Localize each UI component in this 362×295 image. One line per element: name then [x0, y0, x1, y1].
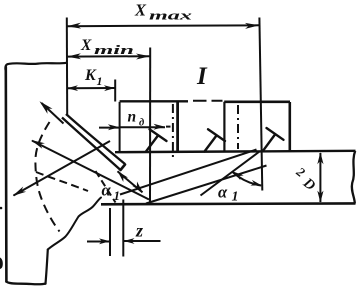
Xmin right arrow — [136, 54, 150, 60]
svg-text:I: I — [196, 63, 208, 90]
dimension K1 line — [67, 87, 115, 89]
svg-text:X: X — [80, 37, 92, 54]
svg-text:1: 1 — [97, 74, 103, 88]
workpiece bar top edge — [115, 151, 356, 152]
block 1 left edge — [119, 102, 121, 152]
part housing outline — [5, 63, 101, 284]
Xmin left arrow — [67, 53, 81, 59]
extension K1 right — [114, 80, 116, 102]
dashed hidden arc (cutter) — [35, 122, 59, 232]
support symbol S3 — [263, 128, 284, 151]
svg-text:D: D — [299, 174, 318, 194]
svg-text:min: min — [94, 43, 134, 57]
block 2 top edge — [224, 101, 290, 104]
svg-text:1: 1 — [232, 190, 239, 205]
nD left arrow pointing right at block edge — [108, 124, 120, 130]
long line L2 with arrows both ends — [32, 141, 149, 200]
workpiece bar bottom edge — [101, 202, 356, 206]
machined cone line B (shallow lower) — [146, 166, 267, 204]
extension line right for Xmax going down through bar — [259, 18, 262, 191]
z dim left tail+arrow — [87, 241, 110, 243]
svg-text:2: 2 — [293, 163, 309, 180]
nD mid line — [119, 126, 165, 128]
svg-text:1: 1 — [114, 188, 121, 203]
support symbol S2 — [205, 129, 226, 151]
svg-text:α: α — [218, 183, 228, 202]
tool blade lower edge — [62, 118, 121, 171]
K1 right arrow — [104, 85, 115, 91]
K1 left arrow — [67, 85, 78, 91]
dashed short diagonal near tool tip — [96, 171, 116, 203]
hidden top line dashes between blocks — [193, 100, 223, 102]
svg-text:z: z — [135, 221, 143, 241]
dimension nD line tail left — [99, 127, 119, 129]
steep cut line right — [201, 152, 260, 196]
svg-text:п: п — [128, 109, 137, 126]
nD tick after arrow — [166, 126, 171, 128]
dimension Xmin line — [67, 55, 150, 57]
centerline in block 2 — [237, 105, 239, 149]
support symbol S1 — [146, 129, 167, 151]
svg-text:X: X — [134, 1, 147, 20]
z extension line right — [122, 200, 124, 257]
alpha1 arc right — [233, 172, 262, 186]
block 1 top edge — [120, 100, 188, 102]
long line L1 with arrow lower-left — [14, 141, 111, 196]
dimension Xmax line — [67, 24, 259, 27]
nD right arrow — [154, 124, 166, 130]
alpha1 arc left — [118, 171, 143, 192]
svg-text:д: д — [139, 118, 144, 129]
block 2 right edge — [288, 102, 291, 151]
svg-text:K: K — [84, 67, 97, 84]
z extension line left — [109, 208, 111, 256]
dashed short piece left — [36, 172, 88, 191]
scan artifact blob left edge — [0, 258, 3, 270]
block 1 right edge (thick) — [176, 101, 179, 151]
diameter dimension line right — [319, 153, 321, 202]
tool blade upper edge — [66, 114, 125, 164]
machined cone line A (shallow) — [120, 150, 257, 195]
motion arrow A1 — [42, 103, 64, 124]
Xmax right arrow — [245, 23, 259, 29]
z dim right tail+arrow — [124, 240, 161, 242]
extension line right Xmin down through bar — [149, 48, 151, 205]
scan speck left edge — [0, 207, 2, 210]
tool tip join — [121, 165, 126, 171]
Xmax left arrow — [67, 23, 81, 29]
extension line left (common) — [66, 18, 68, 116]
svg-text:α: α — [102, 181, 112, 200]
block 2 left edge — [223, 102, 225, 152]
bar right break line — [352, 151, 355, 204]
centerline in block 1 — [172, 104, 174, 157]
svg-text:max: max — [149, 8, 193, 23]
